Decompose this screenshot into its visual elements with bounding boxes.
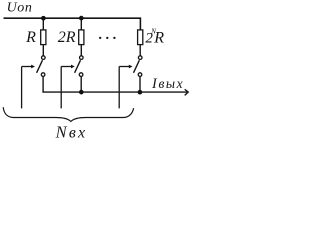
wire S3 control input [118,67,120,109]
wire R1 top lead [42,18,44,30]
wire R1 bottom lead [42,45,44,56]
control arrow S1 [22,66,33,68]
switch S3 top contact [138,56,142,60]
node junction dot D (S3 to bus) [138,90,143,95]
wire R2 top lead [80,18,82,30]
switch S2 bottom contact [79,73,83,77]
switch S1 top contact [42,56,46,60]
wire top bus from Uоп terminal to right corner, dropping to R3 [4,18,141,30]
wire R2 bottom lead [80,45,82,56]
node junction dot B (top of R2) [79,16,84,21]
node junction dot A (top of R1) [41,16,46,21]
node junction dot C (S2 to bus) [79,90,84,95]
wire output bus Iвых [43,91,188,92]
resistor R3 [138,30,143,45]
resistor R1 [41,30,46,45]
svg-text:R: R [25,29,36,46]
svg-text:R: R [153,30,164,47]
switch S3 bottom contact [138,73,142,77]
svg-text:2R: 2R [58,29,76,46]
switch S1 lever [37,60,43,73]
switch S2 lever [75,60,81,73]
control arrow S3 [119,66,130,68]
wire S2 control input [60,67,62,109]
control arrow S2 [61,66,72,68]
svg-text:Iвых: Iвых [151,76,184,92]
wire S2 bottom contact to output bus [80,76,82,92]
svg-text:Uоп: Uоп [7,1,33,16]
switch S3 lever [134,60,140,73]
arrowhead output bus [185,89,189,95]
switch S1 bottom contact [41,73,45,77]
ellipsis between R2 and R3 [99,37,101,39]
resistor R2 [79,30,84,45]
wire S1 bottom contact to output bus corner [42,76,44,91]
wire R3 bottom lead [139,45,141,56]
wire S3 bottom contact to output bus [139,76,141,92]
brace grouping N input lines [3,107,133,121]
switch S2 top contact [80,56,84,60]
wire S1 control input [21,67,23,109]
svg-text:Nвх: Nвх [55,123,88,142]
